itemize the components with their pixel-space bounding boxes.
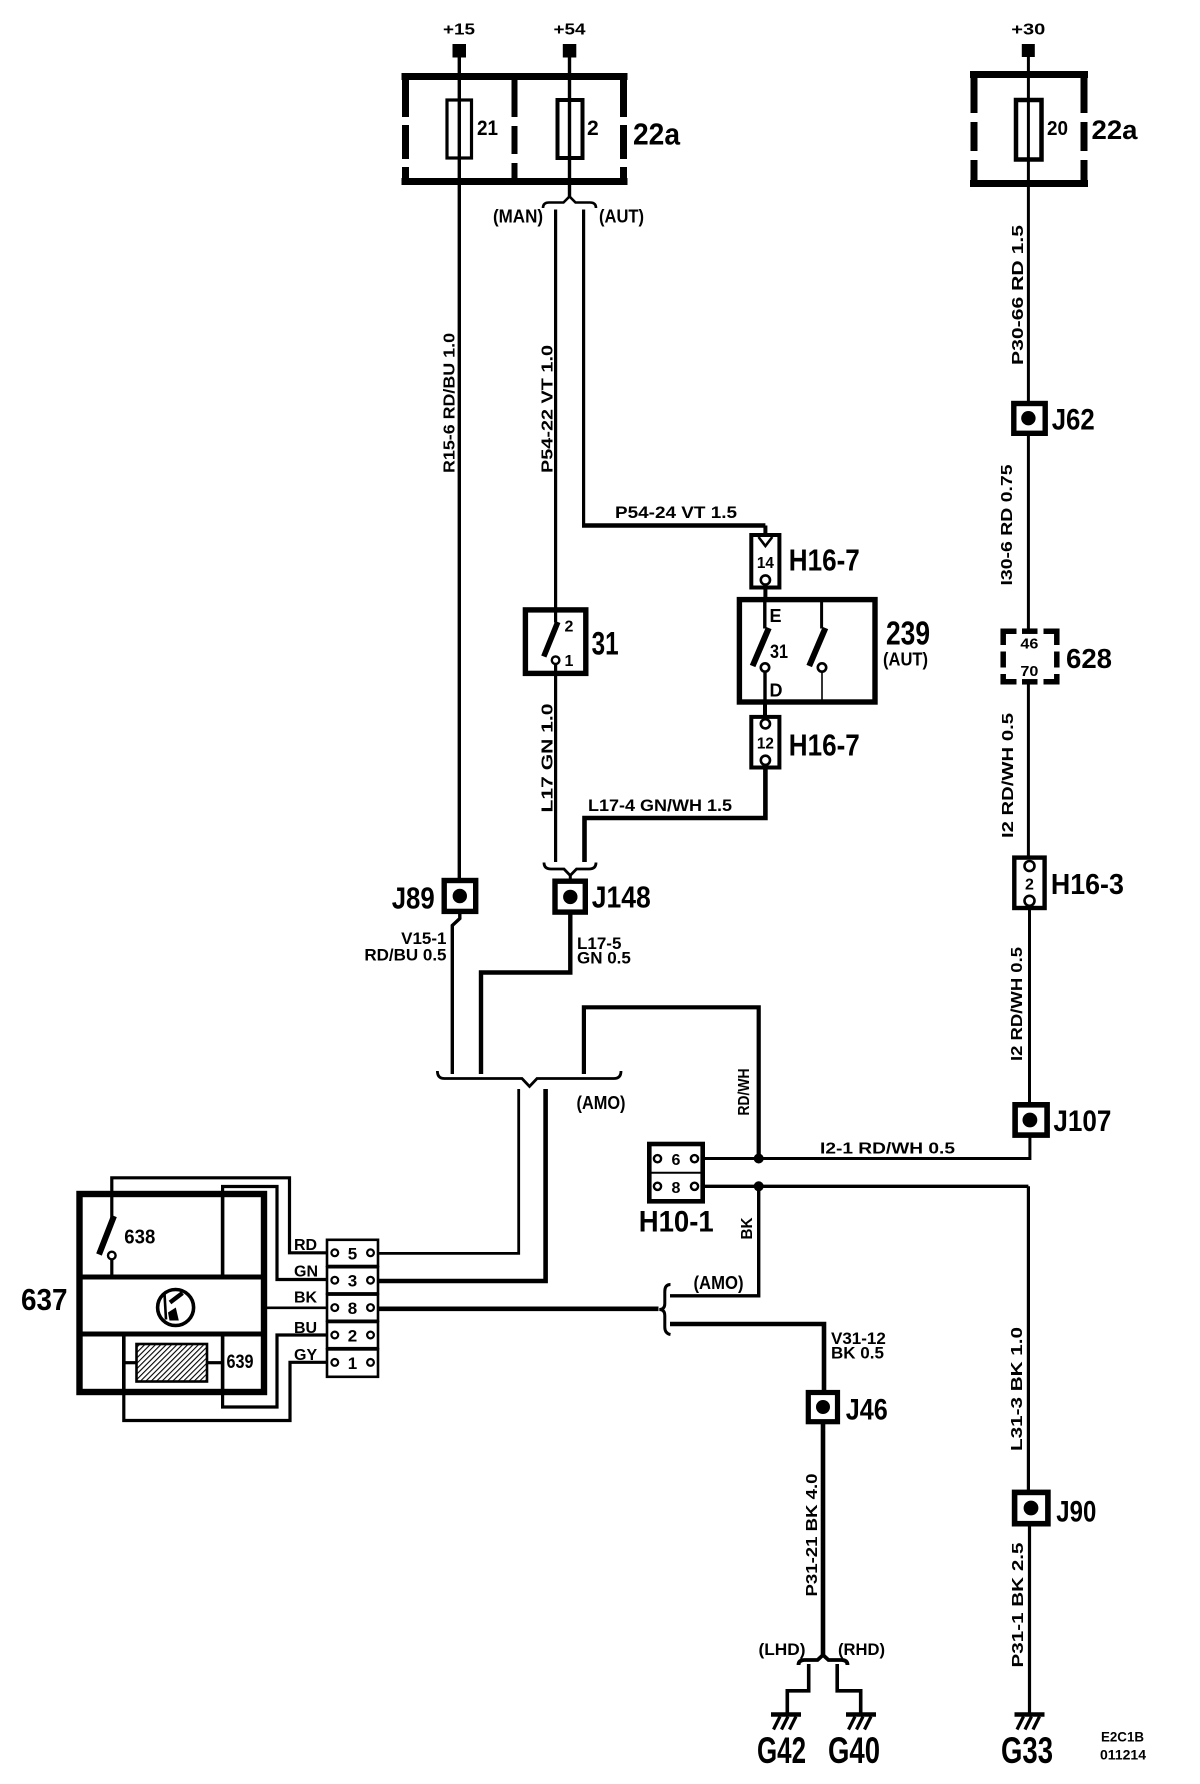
svg-text:GN 0.5: GN 0.5 bbox=[577, 949, 631, 968]
svg-text:46: 46 bbox=[1020, 637, 1038, 653]
svg-text:J90: J90 bbox=[1056, 1496, 1096, 1529]
svg-text:J148: J148 bbox=[592, 880, 651, 915]
svg-text:L17-4 GN/WH 1.5: L17-4 GN/WH 1.5 bbox=[588, 796, 732, 815]
svg-text:H16-7: H16-7 bbox=[789, 543, 860, 578]
ground G40 bbox=[828, 1715, 880, 1772]
junction J90 bbox=[1015, 1492, 1097, 1528]
svg-text:(MAN): (MAN) bbox=[493, 207, 543, 227]
svg-text:J107: J107 bbox=[1053, 1105, 1111, 1138]
ground G33 bbox=[1001, 1715, 1053, 1772]
fuse 2 bbox=[558, 100, 599, 185]
svg-text:21: 21 bbox=[477, 117, 498, 140]
wire AUT down bbox=[582, 210, 585, 526]
svg-text:70: 70 bbox=[1020, 664, 1038, 680]
junction J62 bbox=[1014, 404, 1095, 437]
svg-text:8: 8 bbox=[348, 1299, 357, 1318]
svg-text:2: 2 bbox=[348, 1327, 357, 1346]
svg-text:(AMO): (AMO) bbox=[577, 1093, 626, 1113]
wire P30-66 fuse20 to J62 bbox=[1027, 187, 1030, 404]
node +15 bbox=[443, 22, 475, 58]
svg-text:D: D bbox=[770, 681, 783, 701]
control module 628 (dashed) bbox=[1003, 631, 1057, 682]
brace AMO split bbox=[659, 1285, 670, 1335]
svg-text:GN: GN bbox=[294, 1264, 318, 1281]
wire +30 to fuse 20 bbox=[1027, 57, 1030, 100]
wire BU from lower right wall bbox=[223, 1335, 327, 1407]
wire I2 H16-3 to J107 bbox=[1028, 908, 1031, 1105]
svg-text:BK: BK bbox=[739, 1217, 756, 1239]
wire I30-6 J62 to 628 bbox=[1027, 433, 1030, 630]
svg-text:P30-66 RD 1.5: P30-66 RD 1.5 bbox=[1010, 225, 1027, 365]
wire pin14 to 239 bbox=[763, 588, 767, 601]
svg-text:(RHD): (RHD) bbox=[838, 1640, 885, 1659]
svg-text:14: 14 bbox=[757, 555, 774, 572]
svg-text:20: 20 bbox=[1047, 118, 1068, 140]
node +30 bbox=[1011, 22, 1045, 58]
svg-text:8: 8 bbox=[672, 1180, 681, 1197]
svg-text:+30: +30 bbox=[1011, 22, 1045, 39]
svg-text:+15: +15 bbox=[443, 22, 475, 39]
connector H16-7 pin 14 bbox=[751, 535, 779, 588]
clock motor symbol bbox=[158, 1290, 194, 1326]
svg-text:E2C1B: E2C1B bbox=[1101, 1729, 1144, 1745]
svg-text:I2 RD/WH 0.5: I2 RD/WH 0.5 bbox=[1000, 713, 1017, 838]
svg-text:L17 GN 1.0: L17 GN 1.0 bbox=[540, 703, 557, 812]
svg-text:R15-6 RD/BU 1.0: R15-6 RD/BU 1.0 bbox=[442, 333, 459, 473]
svg-text:637: 637 bbox=[21, 1282, 68, 1317]
svg-text:P54-22 VT 1.0: P54-22 VT 1.0 bbox=[540, 345, 557, 473]
wire BK from 637 body bbox=[264, 1307, 327, 1310]
wire P54-24 horizontal bbox=[582, 523, 765, 528]
svg-text:BK: BK bbox=[294, 1290, 318, 1307]
wire L17 below 31 bbox=[554, 673, 557, 862]
fuse box 22a (left) bbox=[402, 73, 681, 185]
junction J107 bbox=[1015, 1105, 1111, 1138]
wire H10-1 pin8 to right column bbox=[703, 1185, 1029, 1188]
svg-text:P31-21 BK 4.0: P31-21 BK 4.0 bbox=[804, 1473, 821, 1596]
wire brace lower arm to J46 bbox=[670, 1324, 824, 1393]
svg-text:638: 638 bbox=[124, 1227, 155, 1249]
svg-text:P31-1 BK 2.5: P31-1 BK 2.5 bbox=[1010, 1542, 1027, 1667]
svg-text:5: 5 bbox=[348, 1244, 357, 1263]
svg-text:J62: J62 bbox=[1052, 404, 1095, 437]
wire fuse2 stub to split bbox=[568, 185, 571, 198]
switch 638 bbox=[99, 1216, 155, 1275]
svg-text:G33: G33 bbox=[1001, 1730, 1053, 1771]
svg-text:011214: 011214 bbox=[1100, 1747, 1146, 1763]
wire to G42 bbox=[787, 1664, 808, 1713]
fuse box 22a (right) bbox=[970, 71, 1138, 187]
svg-text:H16-3: H16-3 bbox=[1051, 869, 1124, 901]
svg-text:RD/BU 0.5: RD/BU 0.5 bbox=[364, 946, 446, 965]
wire BK right column down bbox=[1027, 1186, 1030, 1493]
svg-text:G42: G42 bbox=[757, 1730, 806, 1771]
split bracket LHD/RHD bbox=[799, 1655, 848, 1665]
svg-text:2: 2 bbox=[587, 117, 599, 140]
svg-text:G40: G40 bbox=[828, 1730, 880, 1771]
junction J89 bbox=[392, 881, 476, 916]
switch unit 239 (AUT) bbox=[739, 600, 875, 702]
ground G42 bbox=[757, 1715, 806, 1772]
svg-text:H10-1: H10-1 bbox=[639, 1206, 714, 1239]
connector H16-7 pin 12 bbox=[751, 717, 779, 768]
node on pin6 wire bbox=[754, 1154, 764, 1164]
svg-text:P54-24 VT 1.5: P54-24 VT 1.5 bbox=[615, 503, 737, 522]
fuse 21 bbox=[447, 100, 498, 185]
wire to G40 bbox=[837, 1664, 861, 1713]
svg-text:BK 0.5: BK 0.5 bbox=[831, 1344, 884, 1363]
svg-text:12: 12 bbox=[757, 736, 774, 753]
svg-text:(LHD): (LHD) bbox=[759, 1640, 806, 1659]
svg-text:RD: RD bbox=[294, 1237, 317, 1254]
svg-text:I30-6 RD 0.75: I30-6 RD 0.75 bbox=[999, 464, 1016, 585]
svg-text:J89: J89 bbox=[392, 881, 435, 916]
svg-text:BU: BU bbox=[294, 1320, 317, 1337]
wire AMO left out bbox=[378, 1089, 519, 1253]
svg-text:H16-7: H16-7 bbox=[789, 728, 860, 763]
wire L17-5 J148 down bbox=[481, 912, 570, 1074]
svg-text:31: 31 bbox=[770, 642, 788, 663]
resistor 639 bbox=[124, 1336, 254, 1392]
wire pin8 to brace bbox=[378, 1307, 659, 1312]
svg-text:22a: 22a bbox=[1092, 115, 1139, 145]
svg-text:L31-3 BK 1.0: L31-3 BK 1.0 bbox=[1009, 1327, 1026, 1451]
wire MAN P54-22 bbox=[554, 210, 557, 611]
svg-text:2: 2 bbox=[565, 619, 574, 636]
junction J46 bbox=[808, 1393, 888, 1427]
svg-text:I2-1 RD/WH 0.5: I2-1 RD/WH 0.5 bbox=[820, 1141, 955, 1158]
svg-text:(AUT): (AUT) bbox=[883, 650, 928, 670]
wire 239 to pin12 bbox=[763, 702, 767, 717]
svg-text:(AUT): (AUT) bbox=[599, 207, 644, 227]
merge bracket (AMO) bbox=[437, 1071, 621, 1087]
wire V15-1 J89 down bbox=[452, 912, 460, 1075]
svg-text:RD/WH: RD/WH bbox=[736, 1069, 753, 1116]
svg-text:22a: 22a bbox=[633, 117, 681, 152]
svg-text:GY: GY bbox=[294, 1347, 317, 1364]
merge bracket above J148 bbox=[544, 863, 596, 876]
wire R15-6 fuse21 to J89 bbox=[458, 185, 461, 882]
fuse 20 bbox=[1016, 100, 1068, 187]
wire I2 628 to H16-3 bbox=[1027, 683, 1030, 858]
component 637 (clock unit) bbox=[21, 1194, 264, 1392]
svg-text:6: 6 bbox=[672, 1152, 681, 1169]
node +54 bbox=[554, 22, 586, 58]
wire +15 to fuse 21 bbox=[458, 57, 461, 100]
junction J148 bbox=[555, 880, 651, 915]
svg-text:+54: +54 bbox=[554, 22, 586, 39]
connector H16-3 pin 2 bbox=[1014, 858, 1044, 908]
wire J107 down to I2-1 corner bbox=[1028, 1135, 1031, 1160]
svg-text:I2 RD/WH 0.5: I2 RD/WH 0.5 bbox=[1009, 947, 1026, 1061]
wire BK down from pin8 node bbox=[670, 1186, 759, 1296]
wire P31-21 J46 down bbox=[821, 1422, 826, 1656]
switch 31 bbox=[525, 610, 585, 674]
svg-text:3: 3 bbox=[348, 1272, 357, 1291]
svg-text:(AMO): (AMO) bbox=[694, 1273, 744, 1293]
svg-text:639: 639 bbox=[227, 1352, 254, 1373]
wire H10-1 pin6 to J107 corner bbox=[703, 1157, 1030, 1160]
wire RD from switch 638 bbox=[112, 1178, 327, 1253]
wire GY from lower left wall bbox=[124, 1362, 327, 1420]
wire P31-1 J90 to G33 bbox=[1028, 1524, 1031, 1714]
svg-text:1: 1 bbox=[348, 1354, 357, 1373]
node on pin8 wire bbox=[754, 1181, 764, 1191]
svg-text:J46: J46 bbox=[846, 1394, 888, 1427]
svg-text:E: E bbox=[770, 606, 782, 626]
split bracket (MAN)/(AUT) bbox=[543, 197, 596, 209]
wire pin12 to L17-4 corner bbox=[585, 768, 766, 863]
svg-text:239: 239 bbox=[886, 615, 930, 652]
wire +54 to fuse 2 bbox=[568, 57, 571, 100]
connector H10-1 bbox=[649, 1144, 702, 1201]
svg-text:628: 628 bbox=[1066, 643, 1112, 674]
wire RD/WH branch to AMO bracket bbox=[584, 1007, 759, 1159]
svg-text:1: 1 bbox=[565, 653, 574, 670]
connector block pins 5/3/8/2/1 bbox=[327, 1240, 378, 1377]
svg-text:2: 2 bbox=[1025, 877, 1034, 894]
wire GN from wall top bbox=[223, 1187, 327, 1280]
wire AMO right out bbox=[378, 1089, 546, 1281]
svg-text:31: 31 bbox=[592, 626, 619, 662]
